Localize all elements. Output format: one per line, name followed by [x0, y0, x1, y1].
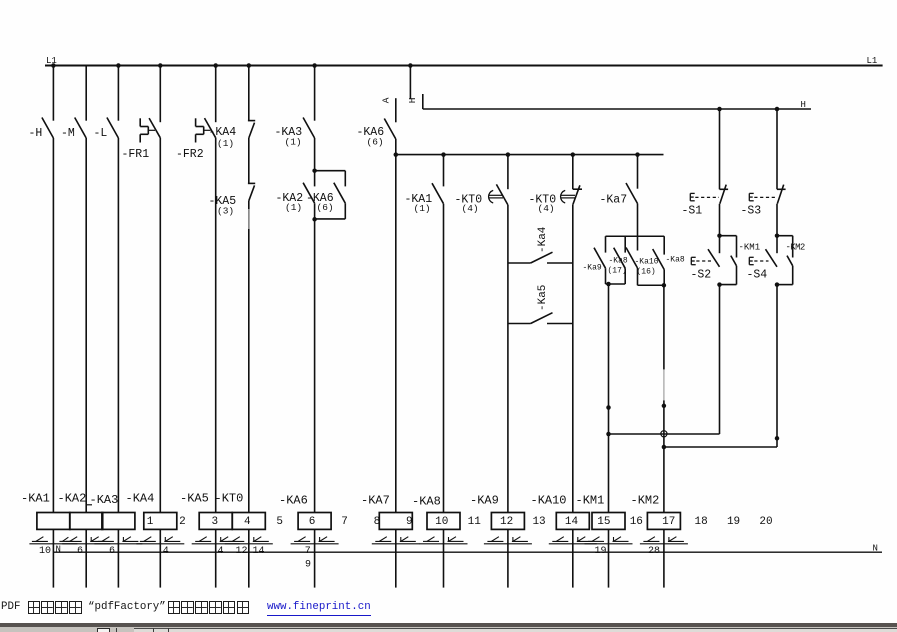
node below S2 — [717, 282, 722, 287]
svg-text:A: A — [380, 97, 391, 103]
svg-text:-KA10: -KA10 — [531, 494, 567, 508]
svg-text:(6): (6) — [367, 137, 384, 148]
svg-text:9: 9 — [406, 516, 413, 528]
wire stub below coil -KA4 — [159, 529, 161, 587]
wire S2 column down — [719, 285, 721, 434]
svg-text:(4): (4) — [462, 203, 479, 214]
NC contact -KA4 — [248, 120, 255, 122]
bridge wire right at Ka4 rung — [547, 262, 573, 264]
wire through rail to Ka10 contact — [637, 236, 639, 250]
node on L1 bus at column 4 — [158, 63, 163, 68]
svg-text:5: 5 — [276, 516, 283, 528]
svg-text:4: 4 — [163, 546, 169, 557]
svg-text:-L: -L — [94, 127, 108, 140]
svg-text:N: N — [873, 544, 878, 554]
svg-text:-FR2: -FR2 — [176, 148, 204, 161]
wire drop to first Ka8 contact — [624, 236, 626, 252]
wire stub below coil -KA5 — [215, 529, 217, 587]
svg-text:(17): (17) — [608, 267, 627, 276]
svg-text:17: 17 — [662, 516, 675, 528]
switch contact -H — [42, 118, 54, 139]
thermal overload symbol -FR2 — [195, 118, 197, 126]
taskbar dark edge — [0, 623, 897, 627]
KM2 self-hold loop right lower — [792, 266, 794, 285]
svg-text:-KA6: -KA6 — [279, 494, 308, 508]
wire column 4 lower (to coil KA4) — [159, 138, 161, 513]
NC contact -KA5 — [248, 182, 255, 184]
node on L1 bus at column 7 — [312, 63, 317, 68]
svg-text:-Ka4: -Ka4 — [537, 226, 549, 253]
wire column 5 upper — [215, 66, 217, 123]
wire stub below coil -KA2 — [85, 529, 87, 587]
wire stub below coil -KA6 — [314, 529, 316, 587]
cluster top rail — [606, 235, 665, 237]
svg-text:-KM1: -KM1 — [576, 494, 605, 508]
thermal contact blade -FR2 — [205, 118, 216, 138]
faded wire segment on KM2 feeder — [663, 369, 665, 400]
wire below Ka10 contact — [637, 268, 639, 285]
svg-text:-KM1: -KM1 — [739, 243, 761, 253]
wire column 2 upper — [85, 66, 87, 121]
contact cross-reference marks of -KA10 — [552, 540, 568, 542]
coil box -KA7 — [379, 513, 412, 530]
wire column 7 lower (to coil KA6) — [314, 203, 316, 512]
switch contact -KA6 (parallel branch) — [334, 183, 346, 204]
svg-text:-S3: -S3 — [741, 205, 762, 218]
branch wire back to left (bottom of parallel loop) — [315, 218, 346, 220]
svg-text:(6): (6) — [317, 202, 334, 213]
svg-text:14: 14 — [252, 546, 264, 557]
node above S4 — [775, 233, 780, 238]
return wire S2 branch to KM1 feeder — [609, 433, 720, 435]
switch contact -Ka7 — [626, 183, 638, 204]
node above S2 — [717, 233, 722, 238]
contact cross-reference marks of -KA7 — [375, 540, 391, 542]
wire column 6 upper — [248, 66, 250, 121]
wire KM1 feeder upper — [608, 284, 610, 513]
wire stub below coil -KA10 — [572, 529, 574, 587]
timed contact -KT0 (on-delay, NC) — [573, 188, 582, 190]
switch contact -Ka9 — [594, 248, 606, 269]
taskbar tick 2 — [153, 628, 154, 632]
svg-text:20: 20 — [759, 516, 772, 528]
wire column 10 upper — [443, 155, 445, 187]
svg-text:16: 16 — [630, 516, 643, 528]
switch contact -Ka10 (16) — [626, 248, 638, 269]
junction node KM2 feeder with S4 return — [662, 445, 667, 450]
coil box -KM1 — [592, 513, 625, 530]
svg-text:2: 2 — [179, 516, 186, 528]
wire stub below coil -KA9 — [507, 529, 509, 587]
wire column 7 upper — [314, 66, 316, 121]
crossover circle (no connection) on KM2 feeder — [661, 431, 667, 437]
switch contact -KA2 — [303, 183, 315, 204]
wire column 2 lower (to coil KA2) — [85, 138, 87, 513]
wire column 11 lower (to coil KA9) — [507, 205, 509, 513]
sub-bus fed by KA6 contact — [396, 154, 664, 156]
coil box -KA9 — [491, 513, 524, 530]
bridge wire right at Ka5 rung — [547, 323, 573, 325]
svg-text:6: 6 — [309, 516, 316, 528]
svg-text:-Ka7: -Ka7 — [600, 194, 628, 207]
contact cross-reference marks of -KM1 — [588, 540, 604, 542]
push-button contact -S4 (NO) — [776, 236, 778, 254]
svg-text:-KM2: -KM2 — [631, 494, 660, 508]
wire column 1 upper (from L1 bus) — [52, 66, 54, 121]
bridge wire left at Ka5 rung — [508, 323, 531, 325]
wire column 1 lower (to coil KA1) — [52, 138, 54, 513]
wire drop from L1 bus to net H — [409, 66, 411, 99]
wire S3 to S4 node — [776, 204, 778, 236]
wire column 5 lower (to coil KA5) — [215, 138, 217, 513]
svg-text:1: 1 — [147, 516, 154, 528]
cross-reference underline of -KA3 — [94, 543, 142, 545]
taskbar tick 3 — [168, 628, 169, 632]
contact cross-reference marks of -KM2 — [643, 540, 659, 542]
node on L1 bus at column 3 — [116, 63, 121, 68]
delay symbol of first -KT0 — [489, 190, 494, 203]
svg-text:10: 10 — [39, 546, 51, 557]
cross-reference underline of -KA4 — [136, 543, 184, 545]
svg-text:-KA9: -KA9 — [470, 494, 499, 508]
wire column 3 upper — [117, 66, 119, 121]
top supply bus L1 — [45, 65, 883, 67]
actuator symbol of -S4 — [748, 257, 750, 264]
svg-text:-KA4: -KA4 — [126, 491, 155, 505]
svg-text:-Ka10: -Ka10 — [635, 258, 659, 267]
wire column 10 lower (to coil KA8) — [443, 204, 445, 513]
cross-reference underline of -KA10 — [549, 543, 597, 545]
node on sub-bus at Ka7 column — [635, 152, 640, 157]
wire stub below coil -KT0 — [248, 529, 250, 587]
wire column 4 upper — [159, 66, 161, 123]
switch contact -KA6 — [384, 119, 396, 140]
cross-reference underline of -KA9 — [484, 543, 532, 545]
actuator symbol of -S2 — [690, 257, 692, 264]
return wire S4 branch to KM2 feeder — [664, 446, 777, 448]
cross-reference underline of -KM1 — [585, 543, 633, 545]
svg-text:(3): (3) — [217, 206, 234, 217]
KM2 self-hold loop bottom — [777, 284, 793, 286]
KM2 self-hold loop right upper — [792, 236, 794, 258]
svg-text:-FR1: -FR1 — [122, 148, 150, 161]
svg-text:7: 7 — [341, 516, 348, 528]
actuator link dashes of -S4 — [754, 260, 768, 262]
wire stub below coil -KA3 — [117, 529, 119, 587]
KM2 self-hold loop top — [777, 235, 793, 237]
contact cross-reference marks of -KA1 — [32, 540, 48, 542]
svg-text:-Ka5: -Ka5 — [537, 285, 549, 311]
svg-text:9: 9 — [305, 560, 311, 571]
wire column 13 upper — [637, 155, 639, 189]
auxiliary contact -KM1 — [731, 256, 737, 266]
wire column 6 middle — [248, 138, 250, 183]
H sub-bus — [423, 108, 811, 110]
coil box -KA3 — [102, 513, 135, 530]
contact cross-reference marks of -KA8 — [423, 540, 439, 542]
svg-text:11: 11 — [468, 516, 482, 528]
riser at start of H sub-bus — [422, 94, 424, 109]
cross-reference underline of -KA7 — [372, 543, 420, 545]
wire S4 column down — [776, 285, 778, 447]
wire drop to second Ka8 contact — [663, 236, 665, 254]
branch wire to right (top of KA6 parallel loop) — [315, 170, 346, 172]
svg-text:-Ka8: -Ka8 — [609, 257, 628, 266]
wire column 3 lower (to coil KA3) — [117, 138, 119, 513]
svg-text:-S4: -S4 — [747, 269, 768, 282]
svg-text:18: 18 — [695, 516, 708, 528]
svg-text:14: 14 — [565, 516, 579, 528]
wire column 7 between contacts — [314, 171, 316, 187]
switch contact -L — [107, 118, 119, 139]
svg-text:6: 6 — [109, 546, 115, 557]
cross-reference underline of -KA1 — [29, 543, 77, 545]
svg-text:-Ka8: -Ka8 — [666, 256, 685, 265]
svg-text:-KA7: -KA7 — [361, 494, 390, 508]
faded wire segment on column 6 — [248, 209, 250, 229]
node below S4 — [775, 282, 780, 287]
svg-text:4: 4 — [244, 516, 251, 528]
actuator symbol of -S1 — [689, 193, 691, 200]
actuator link dashes of -S2 — [696, 260, 711, 262]
stray junction dot on KM2 feeder — [662, 404, 667, 409]
pdfFactory trial watermark line — [0, 601, 2, 616]
cluster bottom rail left pair — [606, 283, 626, 285]
node on H sub-bus at S3 column — [775, 107, 780, 112]
contact cross-reference marks of -KA2 — [66, 540, 82, 542]
svg-text:-KM2: -KM2 — [786, 243, 805, 253]
switch contact -KA3 — [303, 118, 315, 139]
wire stub below coil -KA1 — [52, 529, 54, 587]
wire column 8 to bus node — [395, 139, 397, 155]
wire stub below coil -KA7 — [395, 529, 397, 587]
node on L1 bus at column 5 — [213, 63, 218, 68]
switch contact -Ka8 (right) — [653, 249, 665, 270]
svg-text:3: 3 — [212, 516, 219, 528]
svg-text:-S1: -S1 — [682, 205, 703, 218]
wire column 8 lower (to coil KA7) — [395, 155, 397, 513]
push-button contact -S2 (NO) — [719, 236, 721, 254]
svg-text:7: 7 — [305, 546, 311, 557]
node on sub-bus at second KT0 column — [571, 152, 576, 157]
svg-text:(1): (1) — [217, 138, 234, 149]
stray junction dot on S4 column — [775, 436, 780, 441]
svg-text:-KA3: -KA3 — [90, 493, 119, 507]
node on sub-bus at KA1 column — [441, 152, 446, 157]
wire KM2 feeder middle — [663, 400, 665, 512]
svg-text:-Ka9: -Ka9 — [583, 264, 602, 273]
wire below Ka9 contact — [605, 268, 607, 284]
svg-text:-H: -H — [29, 127, 43, 140]
wire column 13 to cluster rail — [637, 204, 639, 237]
svg-text:N: N — [56, 544, 61, 554]
svg-text:-KA8: -KA8 — [412, 495, 441, 509]
svg-text:19: 19 — [727, 516, 740, 528]
branch right wire upper — [344, 171, 346, 187]
coil box -KA1 — [37, 513, 70, 530]
node on H sub-bus at S1 column — [717, 107, 722, 112]
svg-text:-S2: -S2 — [691, 269, 712, 282]
wire column 12 upper — [572, 155, 574, 190]
coil box -KT0 — [232, 513, 265, 530]
contact cross-reference marks of -KA6 — [294, 540, 310, 542]
actuator symbol of -S3 — [748, 193, 750, 200]
wire S3 column upper — [776, 109, 778, 189]
contact cross-reference marks of -KA3 — [98, 540, 114, 542]
KM1 self-hold loop right lower — [736, 266, 738, 285]
svg-text:(16): (16) — [637, 268, 656, 277]
svg-text:-M: -M — [61, 127, 75, 140]
wire stub below coil -KA8 — [443, 529, 445, 587]
svg-text:(1): (1) — [285, 137, 302, 148]
contact cross-reference marks of -KA5 — [195, 540, 211, 542]
cross-reference underline of -KA8 — [420, 543, 468, 545]
switch contact -Ka8 (17) — [614, 248, 626, 269]
coil box -KA10 — [556, 513, 589, 530]
KM1 self-hold loop top — [720, 235, 737, 237]
coil box -KA5 — [199, 513, 232, 530]
svg-text:L1: L1 — [867, 56, 878, 66]
svg-text:(1): (1) — [285, 202, 302, 213]
cluster bottom rail right pair — [638, 284, 665, 286]
switch contact -Ka4 (horizontal) — [531, 252, 553, 263]
node: KA6 contact joins sub-bus — [394, 152, 399, 157]
branch node lower — [312, 217, 317, 222]
wire below second Ka8 contact — [663, 270, 665, 286]
node on L1 bus at column 6 — [247, 63, 252, 68]
coil box -KA2 — [70, 513, 103, 530]
svg-text:13: 13 — [532, 516, 545, 528]
stray junction dot on KM1 feeder — [606, 405, 611, 410]
bridge wire left at Ka4 rung — [508, 262, 531, 264]
actuator link dashes of -S3 — [754, 196, 776, 198]
junction node under Ka9 pair — [606, 282, 611, 287]
wire column 6 lower (to coil KT0) — [248, 201, 250, 513]
junction node under Ka10 pair — [662, 283, 667, 288]
cross-reference underline of -KM2 — [640, 543, 688, 545]
svg-text:15: 15 — [597, 516, 610, 528]
wire S1 column upper — [719, 109, 721, 189]
svg-text:-KA5: -KA5 — [180, 492, 209, 506]
svg-text:28: 28 — [648, 546, 660, 557]
wire KM2 feeder upper — [663, 285, 665, 370]
thermal contact blade -FR1 — [149, 118, 160, 138]
coil box -KA8 — [427, 513, 460, 530]
KM1 self-hold loop right upper — [736, 236, 738, 258]
node on L1 bus at column 1 — [51, 63, 56, 68]
branch right wire lower — [344, 203, 346, 219]
switch contact -M — [75, 118, 87, 139]
svg-text:-KA2: -KA2 — [58, 491, 87, 505]
push-button contact -S3 (NC) — [777, 188, 786, 190]
auxiliary contact -KM2 — [787, 256, 793, 266]
cross-reference underline of -KA2 — [62, 543, 110, 545]
cross-reference underline of -KA5 — [192, 543, 240, 545]
svg-text:4: 4 — [217, 546, 223, 557]
svg-text:8: 8 — [374, 516, 381, 528]
wire stub below coil -KM1 — [608, 529, 610, 587]
coil box -KA4 — [144, 513, 177, 530]
contact cross-reference marks of -KT0 — [228, 540, 244, 542]
wire column 12 lower (to coil KA10) — [572, 204, 574, 512]
svg-text:H: H — [407, 97, 418, 103]
push-button contact -S1 (NC) — [720, 188, 729, 190]
node on sub-bus at first KT0 column — [506, 152, 511, 157]
node on L1 bus at H drop — [408, 63, 413, 68]
svg-text:12: 12 — [235, 546, 247, 557]
thermal overload symbol -FR1 — [139, 118, 141, 126]
contact cross-reference marks of -KA4 — [140, 540, 156, 542]
coil box -KA6 — [298, 513, 331, 530]
svg-text:H: H — [801, 100, 806, 110]
delay symbol of second -KT0 — [561, 190, 566, 203]
svg-text:19: 19 — [594, 546, 606, 557]
switch contact -Ka5 (horizontal) — [531, 313, 553, 324]
taskbar tick — [116, 628, 118, 632]
contact cross-reference marks of -KA9 — [487, 540, 503, 542]
switch contact -KA1 — [432, 183, 444, 204]
cross-reference underline of -KT0 — [225, 543, 273, 545]
wire column 7 to branch node — [314, 138, 316, 171]
wire stub below coil -KM2 — [663, 529, 665, 587]
junction node KM1 feeder with S2 return — [606, 432, 611, 437]
svg-text:12: 12 — [500, 516, 513, 528]
KM1 self-hold loop bottom — [720, 284, 737, 286]
svg-text:6: 6 — [77, 546, 83, 557]
wire S1 to S2 node — [719, 204, 721, 236]
actuator link dashes of -S1 — [695, 196, 719, 198]
wire drop to Ka9 contact — [605, 236, 607, 252]
cross-reference underline of -KA6 — [291, 543, 339, 545]
wire column 11 upper — [507, 155, 509, 190]
svg-text:(1): (1) — [414, 203, 431, 214]
svg-text:(4): (4) — [538, 203, 555, 214]
svg-text:10: 10 — [435, 516, 448, 528]
timed contact -KT0 (on-delay, NO) — [496, 184, 508, 205]
wire below first Ka8 contact — [624, 268, 626, 284]
taskbar button 1 — [97, 628, 110, 632]
taskbar wide bar — [134, 628, 897, 632]
svg-text:-KT0: -KT0 — [215, 492, 244, 506]
wire stub from net A — [395, 98, 397, 122]
bottom supply rail N — [53, 551, 882, 553]
taskbar band — [0, 627, 897, 632]
svg-text:-KA1: -KA1 — [21, 491, 50, 505]
stray tick below label -KA3 — [87, 504, 93, 506]
coil box -KM2 — [647, 513, 680, 530]
branch node upper (KA2/KA6 parallel) — [312, 168, 317, 173]
